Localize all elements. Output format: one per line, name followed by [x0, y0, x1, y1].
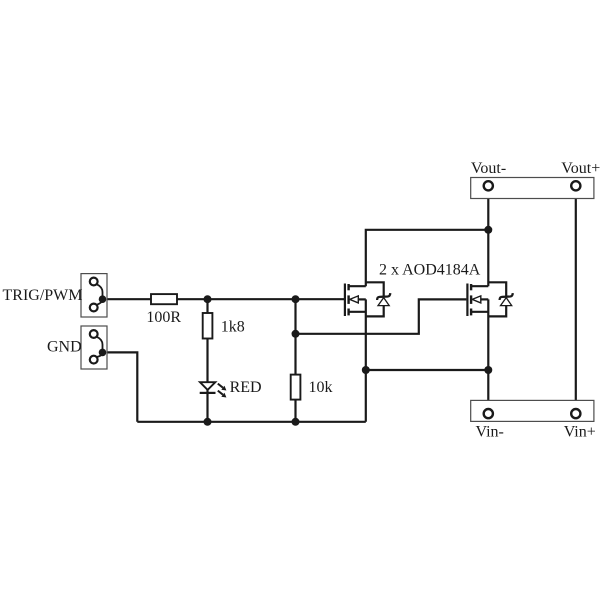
- resistor R1 100R: [151, 294, 177, 304]
- svg-text:TRIG/PWM: TRIG/PWM: [3, 287, 83, 304]
- terminal block J4 Vin: [471, 400, 594, 421]
- wire 1k8 LED chain vertical: [206, 299, 208, 422]
- resistor R3 10k: [291, 375, 301, 400]
- svg-text:2 x AOD4184A: 2 x AOD4184A: [379, 262, 481, 279]
- transistor Q2 AOD4184A: [467, 282, 512, 316]
- svg-text:Vin-: Vin-: [476, 424, 504, 441]
- wire Q2 source to Vin-: [487, 299, 489, 408]
- svg-text:RED: RED: [230, 379, 262, 396]
- wire GND to bottom rail: [103, 352, 138, 421]
- node junction 10k top gate branch: [292, 330, 300, 338]
- terminal block J2 GND: [81, 326, 107, 369]
- node junction Vout- drain rail: [484, 226, 492, 234]
- wire Vout- down to Q2 drain: [487, 191, 489, 286]
- node junction bottom rail 10k: [292, 418, 300, 426]
- svg-text:Vout-: Vout-: [471, 160, 506, 177]
- node junction bottom rail LED: [204, 418, 212, 426]
- node junction on main wire at 10k: [292, 295, 300, 303]
- node junction Q1 source: [362, 366, 370, 374]
- wire bottom rail: [137, 421, 365, 423]
- wire Q1 drain to Vout- node: [366, 230, 489, 286]
- resistor R2 1k8: [203, 313, 213, 339]
- node junction on main wire at 1k8: [204, 295, 212, 303]
- terminal block J1 TRIG/PWM: [81, 274, 107, 317]
- LED D1 RED: [200, 382, 227, 397]
- svg-text:10k: 10k: [309, 379, 333, 396]
- svg-text:GND: GND: [47, 338, 82, 355]
- svg-text:100R: 100R: [146, 309, 181, 326]
- transistor Q1 AOD4184A: [345, 282, 390, 316]
- svg-text:Vin+: Vin+: [564, 424, 596, 441]
- node junction Q2 source: [484, 366, 492, 374]
- wire main TRIG to Q1 gate: [103, 298, 345, 300]
- terminal block J3 Vout: [471, 178, 594, 199]
- wire Q1 source vertical: [365, 299, 367, 421]
- svg-text:1k8: 1k8: [221, 319, 245, 336]
- svg-text:Vout+: Vout+: [561, 160, 600, 177]
- wire Vout+ to Vin+: [575, 191, 577, 408]
- wire 10k chain vertical: [294, 299, 296, 422]
- wire Q2 gate from 10k node: [296, 299, 467, 333]
- wire source rail Q1 to Q2: [366, 369, 489, 371]
